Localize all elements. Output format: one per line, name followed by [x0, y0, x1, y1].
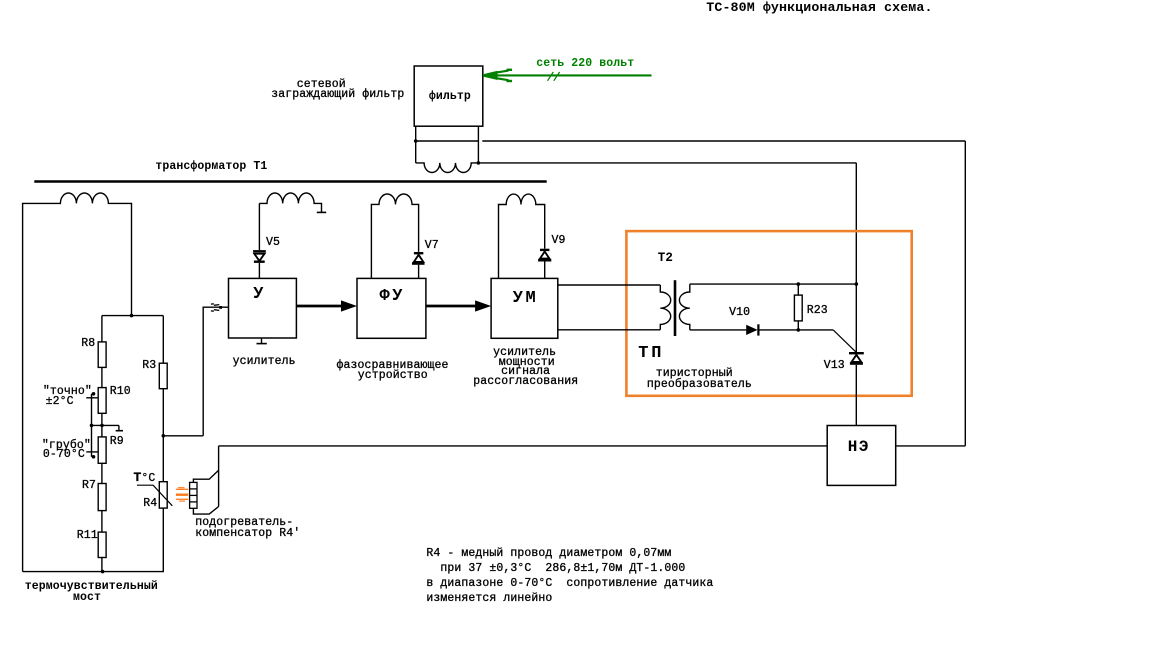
resistor R8	[98, 342, 106, 368]
resistor R4 thermistor	[137, 482, 172, 508]
wire bridge right branch vertical	[162, 316, 164, 572]
input arrowhead into amplifier	[211, 304, 222, 311]
inductor FU supply winding	[371, 194, 418, 278]
label R3	[142, 360, 156, 372]
filter unit box (сетевой заграждающий фильтр)	[414, 66, 483, 126]
wire bridge bottom horizontal	[23, 571, 164, 573]
ground mid-bridge tap	[92, 425, 124, 430]
transformer T1 primary winding loop (bridge supply)	[23, 193, 132, 572]
wire R23 top lead	[797, 284, 799, 295]
label усилитель мощности l2	[499, 357, 555, 369]
wire filter left lead	[415, 126, 417, 163]
label Т2	[658, 252, 673, 265]
wire mains arrow line 220V	[483, 70, 652, 81]
label V13	[824, 360, 845, 372]
heat radiation arrows	[176, 488, 188, 501]
wire heater to NE long line	[219, 445, 828, 447]
label R4	[143, 498, 157, 510]
label мост	[73, 592, 101, 604]
title text	[706, 1, 932, 14]
node junction filter-left / line1	[414, 139, 418, 143]
inductor UM supply winding	[499, 194, 545, 278]
label V5	[266, 237, 280, 249]
label 0-70°С	[43, 449, 85, 461]
node coarse tap dot	[92, 455, 96, 459]
diode V5	[253, 251, 266, 261]
label filter name line1	[297, 79, 346, 91]
label трансформатор Т1	[155, 161, 267, 173]
note R4 line2	[426, 563, 685, 575]
wire bridge output to amplifier	[163, 307, 228, 436]
resistor R9	[98, 437, 106, 463]
wire filter right lead	[477, 126, 479, 163]
wire UM to T2 bottom	[558, 329, 661, 331]
label R7	[82, 480, 96, 492]
node junction R23 bottom	[797, 328, 801, 332]
wire gate diagonal to V13	[833, 330, 856, 352]
wire fine tap R10	[86, 397, 98, 399]
diode V7	[412, 253, 425, 263]
node junction R23 top	[797, 282, 801, 286]
amplifier U box	[229, 278, 297, 338]
node junction bridge bottom	[101, 570, 105, 574]
label У	[253, 286, 263, 303]
node junction T1 winding to bridge top	[130, 314, 134, 318]
wire right rail into NE box	[896, 445, 965, 447]
wire wiper bus	[91, 394, 93, 457]
label R9	[110, 436, 124, 448]
label усилитель	[233, 356, 296, 368]
wire line1 to right rail	[416, 140, 966, 142]
transformer T2 primary winding	[660, 285, 670, 330]
wire signal arrow U to FU	[296, 300, 357, 311]
resistor R11	[98, 532, 106, 557]
wire V5 anode lead	[258, 203, 260, 250]
diode V9	[538, 250, 551, 260]
heating element NE box	[827, 426, 896, 486]
resistor R3	[159, 363, 167, 389]
label точно	[43, 386, 92, 398]
label грубо	[42, 440, 91, 452]
label R11	[77, 530, 98, 542]
label подогреватель l2	[195, 528, 300, 540]
transformer T2 secondary winding	[679, 284, 689, 330]
wire thyristor rail vertical upper	[855, 163, 857, 352]
label НЭ	[848, 439, 870, 455]
wire V10 to gate line	[758, 329, 833, 331]
wire R23 bottom lead	[797, 321, 799, 330]
label ±2°С	[46, 396, 74, 408]
transformer T2 core bar	[674, 280, 677, 336]
wire T2 secondary bottom line	[690, 329, 746, 331]
label усилитель мощности l1	[493, 347, 556, 359]
wire T2 secondary top line	[690, 283, 857, 285]
wire heater bottom lead	[193, 507, 218, 515]
label усилитель мощности l3	[501, 366, 550, 378]
wire V13 cathode to NE	[855, 365, 857, 426]
label преобразователь	[647, 379, 752, 391]
wire V9 lead to UM box	[544, 262, 546, 279]
power amplifier UM box	[491, 278, 558, 338]
label R23	[807, 305, 828, 317]
node junction thyristor rail / T2 top	[855, 282, 859, 286]
note R4 line1	[426, 548, 671, 560]
transformer T1 core bar	[34, 180, 546, 182]
label Т°С	[134, 472, 156, 485]
note R4 line3	[426, 578, 713, 590]
label V7	[425, 240, 439, 252]
label R8	[81, 338, 95, 350]
inductor U supply winding	[259, 193, 326, 212]
ground below U box	[257, 338, 267, 344]
label V10	[729, 307, 750, 319]
label ТП	[638, 345, 664, 362]
wire bridge top horizontal	[102, 315, 163, 317]
thyristor V13	[849, 353, 864, 363]
phase comparator FU box	[357, 278, 426, 338]
label R10	[110, 386, 131, 398]
wire bridge left branch vertical	[101, 316, 103, 572]
node bridge output junction	[162, 434, 166, 438]
wire coarse tap R9	[86, 451, 98, 453]
label подогреватель l1	[195, 517, 293, 529]
label V9	[552, 235, 566, 247]
label фильтр	[429, 91, 471, 103]
wire UM to T2 top	[558, 284, 661, 286]
resistor R10	[98, 388, 106, 414]
label сеть 220 вольт	[536, 58, 634, 70]
label устройство	[358, 370, 428, 382]
node junction mid-bridge	[90, 424, 104, 428]
wire V7 lead to FU box	[418, 265, 420, 279]
inductor filter choke	[416, 163, 479, 173]
thyristor converter TP outline box	[626, 231, 911, 396]
wire heater vertical riser	[218, 446, 220, 507]
node fine tap dot	[92, 392, 96, 396]
resistor R23	[794, 295, 802, 321]
node junction choke / line2	[477, 161, 481, 165]
wire signal arrow FU to UM	[426, 300, 491, 311]
wire line2 to thyristor rail	[478, 162, 856, 164]
diode V10	[746, 324, 758, 335]
label фазосравнивающее	[337, 360, 449, 372]
note R4 line4	[426, 593, 552, 605]
wire right rail vertical	[964, 141, 966, 446]
wire V5 cathode lead	[258, 263, 260, 279]
resistor R7	[98, 484, 106, 511]
label УМ	[513, 290, 538, 307]
label filter name line2	[271, 89, 404, 101]
label термочувствительный	[25, 581, 158, 593]
label тиристорный	[656, 368, 733, 380]
heater-compensator R4 prime element	[190, 482, 197, 508]
label усилитель мощности l4	[473, 376, 578, 388]
wire heater top lead	[193, 470, 218, 482]
label ФУ	[380, 288, 405, 305]
